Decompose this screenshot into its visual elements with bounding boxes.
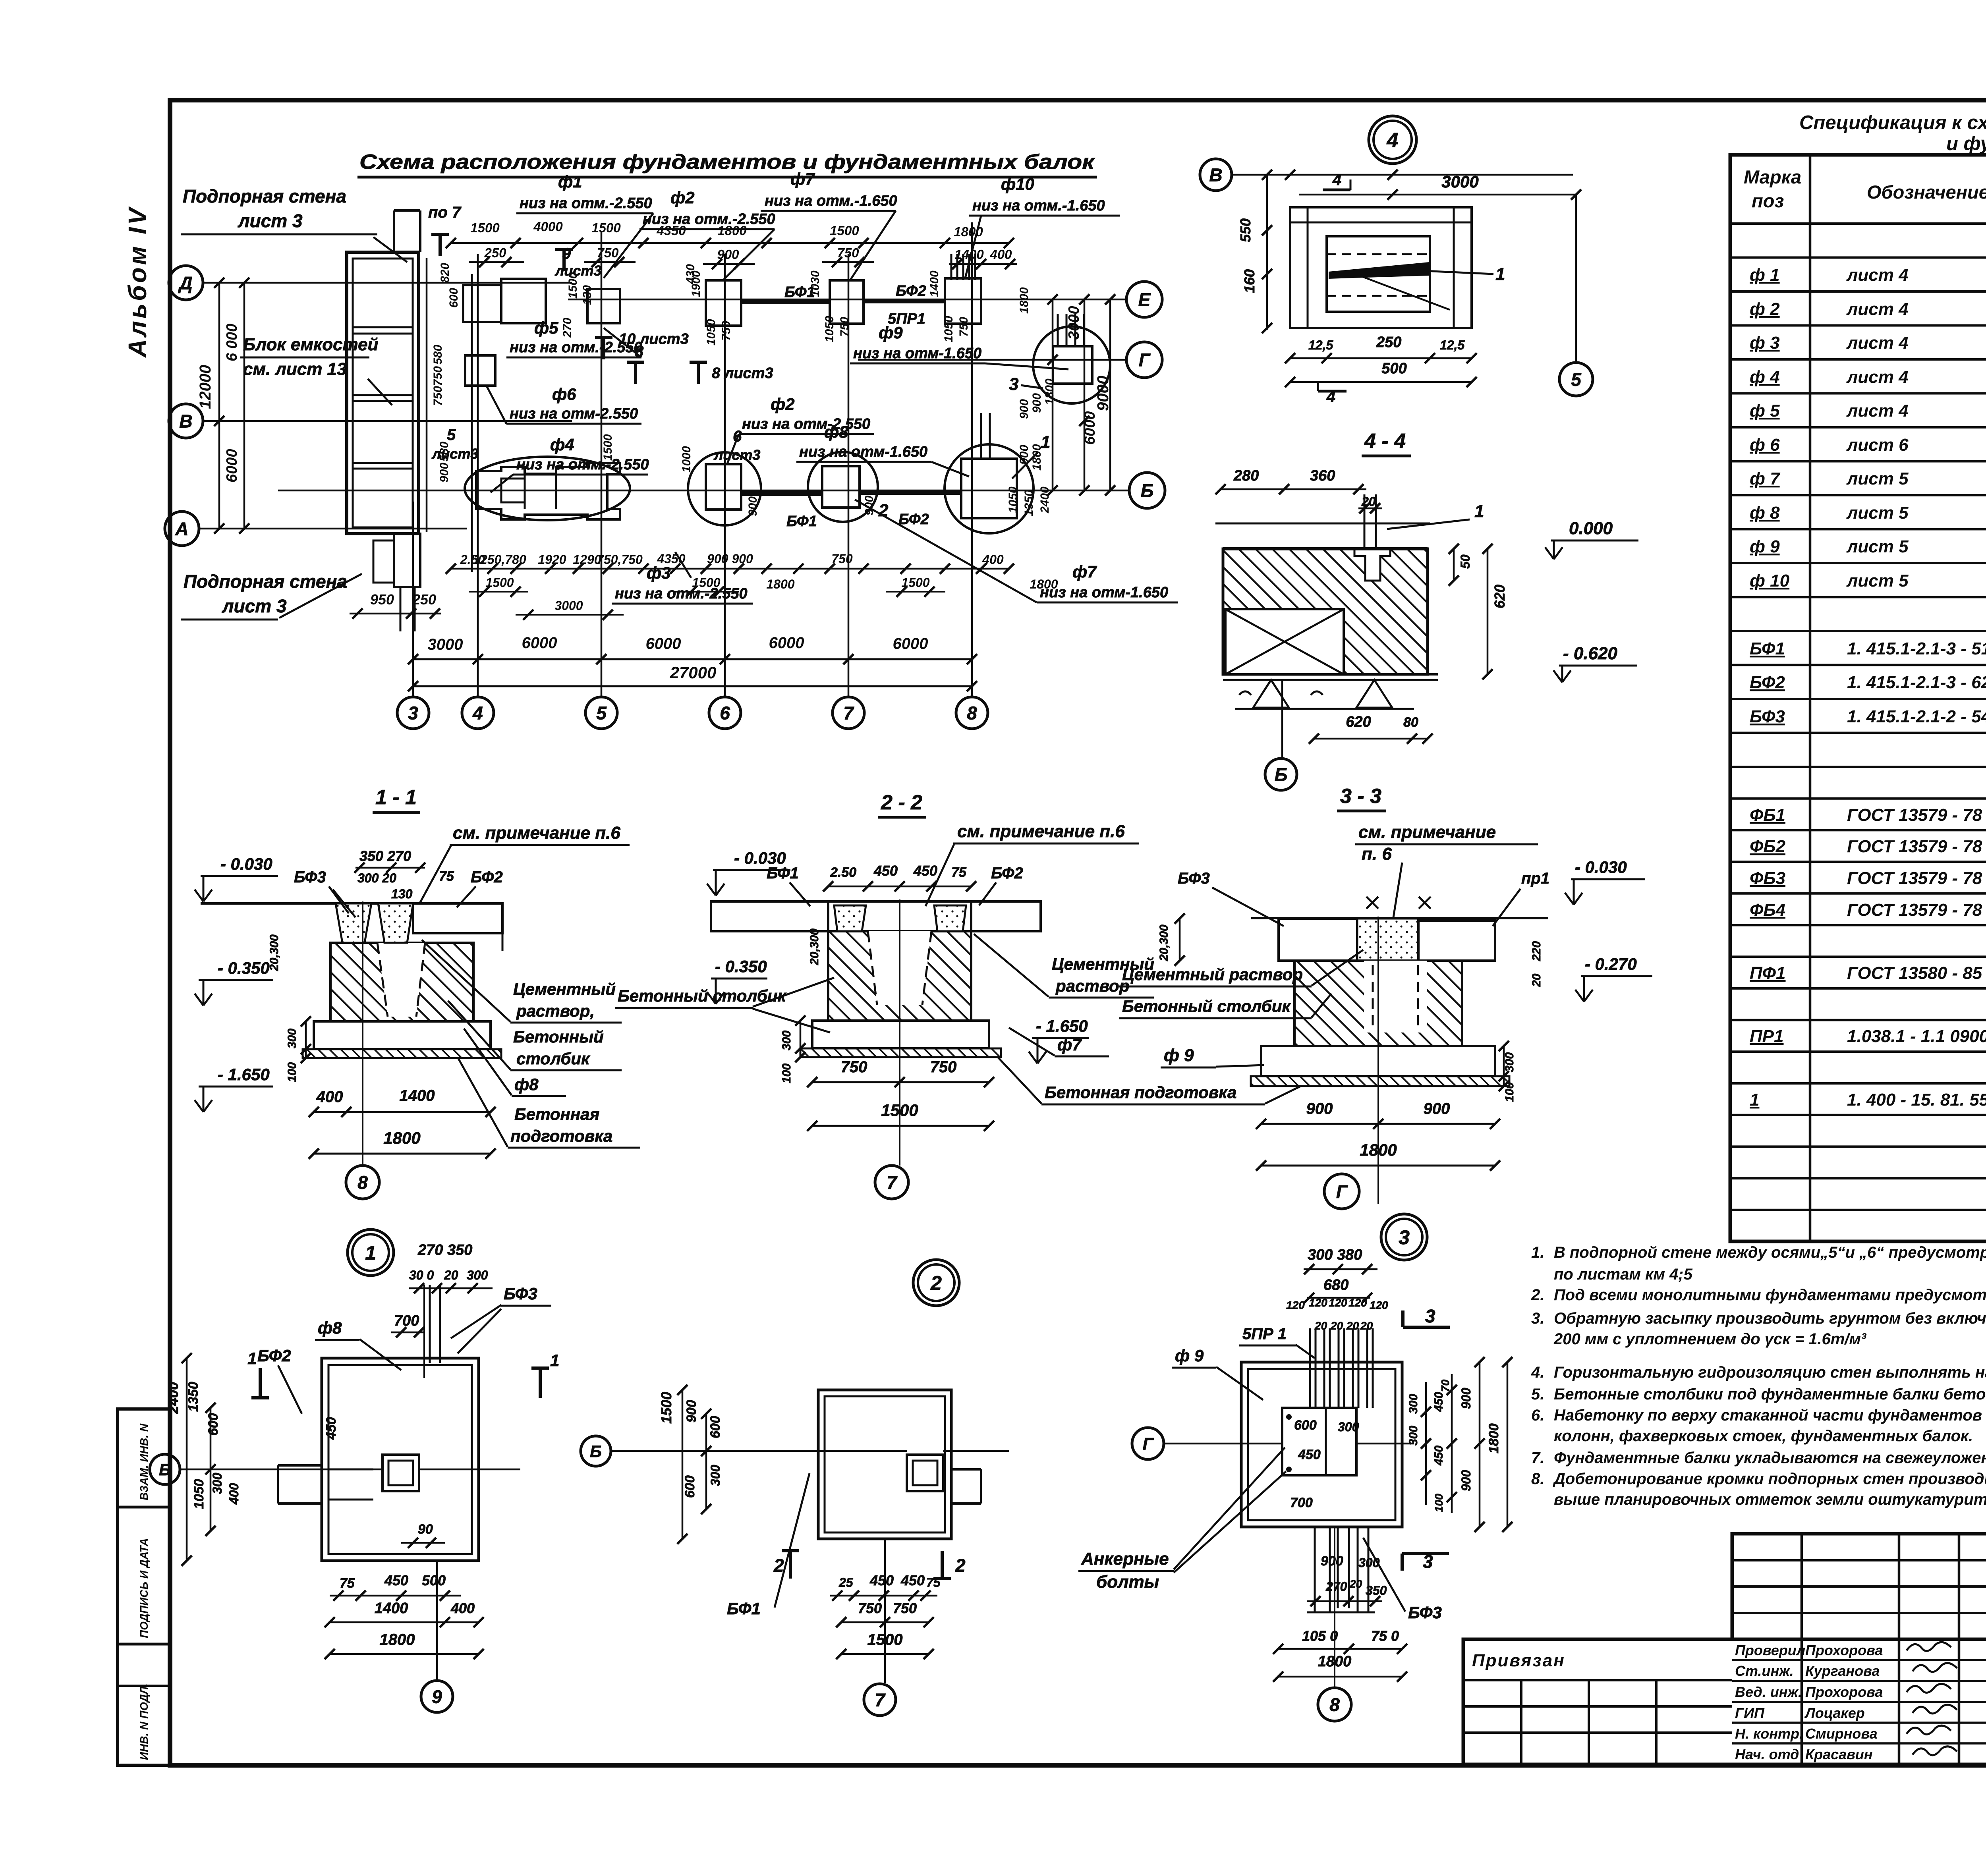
svg-text:6000: 6000: [522, 634, 557, 652]
svg-text:120: 120: [1329, 1297, 1347, 1309]
svg-text:ф6: ф6: [552, 385, 576, 403]
svg-text:750: 750: [957, 317, 970, 337]
svg-text:750: 750: [858, 1600, 882, 1616]
svg-text:Цементный: Цементный: [513, 980, 616, 998]
svg-text:600: 600: [682, 1475, 697, 1498]
svg-text:Прохорова: Прохорова: [1805, 1684, 1883, 1700]
svg-text:БФ2: БФ2: [898, 511, 929, 528]
svg-text:5: 5: [1571, 369, 1582, 390]
svg-text:п. 6: п. 6: [1362, 844, 1392, 864]
svg-text:Лоцакер: Лоцакер: [1804, 1705, 1865, 1721]
svg-text:350: 350: [1366, 1583, 1387, 1598]
svg-text:8: 8: [635, 343, 644, 360]
svg-text:900: 900: [684, 1400, 699, 1422]
svg-text:лист 5: лист 5: [1846, 469, 1909, 488]
svg-text:7: 7: [887, 1172, 898, 1193]
svg-text:ГОСТ 13579 - 78: ГОСТ 13579 - 78: [1847, 869, 1982, 888]
svg-text:Прохорова: Прохорова: [1805, 1642, 1883, 1658]
svg-text:75: 75: [951, 865, 967, 880]
svg-text:80: 80: [1403, 715, 1418, 730]
svg-text:6 000: 6 000: [224, 324, 240, 361]
svg-text:600: 600: [206, 1413, 221, 1436]
beam BF2 bottom: [860, 490, 961, 495]
svg-text:лист 6: лист 6: [1846, 435, 1909, 455]
svg-text:1: 1: [247, 1349, 257, 1368]
svg-text:ф 8: ф 8: [1750, 503, 1780, 523]
axis bubble 8 below 1-1: [346, 1166, 379, 1199]
svg-text:9: 9: [432, 1687, 442, 1707]
svg-text:ф 1: ф 1: [1750, 265, 1780, 285]
title block (stamp): [1463, 1534, 1986, 1764]
svg-text:1800: 1800: [766, 577, 794, 591]
svg-text:Бетонные столбики под фундамен: Бетонные столбики под фундаментные балки…: [1554, 1386, 1986, 1403]
svg-text:ф8: ф8: [514, 1075, 539, 1094]
svg-text:360: 360: [1310, 467, 1335, 484]
svg-text:20,300: 20,300: [808, 928, 821, 965]
svg-text:низ на отм-2.550: низ на отм-2.550: [510, 405, 638, 422]
svg-text:БФ3: БФ3: [294, 869, 326, 886]
svg-text:350 270: 350 270: [359, 848, 411, 864]
svg-text:400: 400: [227, 1483, 241, 1505]
axis bubble V: [169, 404, 203, 438]
svg-text:400: 400: [982, 552, 1004, 567]
svg-text:- 0.030: - 0.030: [220, 855, 272, 873]
svg-text:1400: 1400: [928, 270, 941, 297]
svg-text:низ на отм.-2.550: низ на отм.-2.550: [520, 195, 652, 212]
axis bubble G detail3: [1132, 1428, 1164, 1459]
svg-text:лист 5: лист 5: [1846, 571, 1909, 591]
svg-text:220: 220: [1530, 941, 1543, 961]
svg-text:4000: 4000: [533, 219, 563, 234]
svg-text:100: 100: [1433, 1494, 1445, 1512]
svg-text:- 0.270: - 0.270: [1585, 955, 1637, 973]
svg-text:ИНВ. N ПОДЛ.: ИНВ. N ПОДЛ.: [138, 1683, 150, 1760]
svg-text:300: 300: [286, 1029, 299, 1048]
svg-text:900: 900: [717, 247, 739, 262]
svg-text:поз: поз: [1752, 190, 1784, 211]
svg-text:ф2: ф2: [670, 188, 695, 207]
svg-text:лист 4: лист 4: [1846, 265, 1909, 285]
DETAIL 4 plan: [1200, 116, 1593, 405]
svg-text:75: 75: [439, 869, 454, 884]
axis lines horizontal: [203, 282, 572, 284]
beam BF1 bottom: [741, 491, 822, 496]
axis bubble E: [1126, 282, 1162, 317]
svg-text:9000: 9000: [1094, 376, 1112, 411]
foundation F7 bottom in circle: [808, 452, 878, 522]
svg-text:Красавин: Красавин: [1805, 1746, 1873, 1762]
svg-text:2.50: 2.50: [830, 865, 856, 880]
svg-text:ф4: ф4: [550, 435, 574, 454]
svg-text:1: 1: [1495, 264, 1505, 284]
svg-text:лист 3: лист 3: [238, 210, 303, 231]
svg-text:Альбом IV: Альбом IV: [123, 206, 152, 358]
svg-text:450: 450: [324, 1417, 339, 1440]
svg-text:12,5: 12,5: [1308, 338, 1333, 352]
svg-text:3.: 3.: [1531, 1310, 1544, 1327]
svg-text:2: 2: [773, 1555, 784, 1576]
axis bubble B below 4-4: [1265, 759, 1297, 790]
svg-text:и фундаментных балок.: и фундаментных балок.: [1946, 133, 1986, 154]
svg-text:Б: Б: [1275, 764, 1288, 785]
svg-text:В: В: [179, 411, 192, 432]
svg-text:лист 4: лист 4: [1846, 367, 1909, 387]
svg-text:1920: 1920: [538, 552, 566, 567]
svg-text:900: 900: [1018, 399, 1031, 419]
svg-text:1800: 1800: [1486, 1423, 1501, 1453]
svg-text:ф 6: ф 6: [1750, 435, 1780, 455]
svg-text:1500: 1500: [485, 575, 514, 590]
svg-text:900: 900: [746, 496, 759, 516]
svg-text:Под всеми монолитными фундаме: Под всеми монолитными фундаментами преду…: [1554, 1286, 1986, 1304]
beam BF2 top: [864, 299, 945, 303]
leader labels: [487, 170, 1178, 604]
svg-text:1350: 1350: [186, 1382, 201, 1412]
svg-text:лист 3: лист 3: [222, 596, 287, 616]
svg-text:4 - 4: 4 - 4: [1364, 430, 1406, 453]
svg-text:Д: Д: [178, 273, 192, 293]
svg-text:750: 750: [831, 552, 853, 566]
svg-text:750: 750: [838, 317, 851, 337]
svg-text:450: 450: [869, 1572, 894, 1588]
svg-text:БФ1: БФ1: [1750, 639, 1785, 658]
axis bubble A: [165, 511, 199, 546]
svg-text:БФ2: БФ2: [896, 283, 926, 299]
svg-text:Цементный раствор: Цементный раствор: [1122, 965, 1303, 984]
svg-text:ГИП: ГИП: [1735, 1705, 1765, 1721]
svg-text:300: 300: [708, 1465, 723, 1486]
svg-text:2 - 2: 2 - 2: [881, 791, 922, 814]
svg-text:БФ1: БФ1: [784, 284, 815, 301]
svg-text:90: 90: [418, 1522, 433, 1537]
svg-text:ГОСТ 13579 - 78: ГОСТ 13579 - 78: [1847, 837, 1982, 856]
svg-text:27000: 27000: [670, 663, 717, 682]
node circle 3: [1381, 1214, 1427, 1260]
svg-text:ф 2: ф 2: [1750, 299, 1780, 319]
beam BF1 top: [741, 299, 830, 304]
svg-text:400: 400: [316, 1088, 343, 1106]
svg-text:- 0.350: - 0.350: [218, 959, 270, 977]
svg-text:6: 6: [720, 703, 730, 724]
svg-text:20,300: 20,300: [1157, 924, 1171, 961]
svg-text:1. 400 - 15. 81. 550 - 04: 1. 400 - 15. 81. 550 - 04: [1847, 1090, 1986, 1110]
svg-text:1. 415.1-2.1-3 - 51: 1. 415.1-2.1-3 - 51: [1847, 639, 1986, 658]
svg-text:100: 100: [780, 1063, 793, 1083]
svg-text:450: 450: [384, 1572, 408, 1588]
svg-text:низ на отм-1.650: низ на отм-1.650: [1040, 584, 1168, 601]
svg-text:Бетонная подготовка: Бетонная подготовка: [1045, 1083, 1236, 1102]
svg-text:6: 6: [733, 428, 742, 445]
svg-text:1500: 1500: [470, 220, 500, 235]
svg-text:столбик: столбик: [516, 1049, 590, 1068]
svg-text:низ на отм.-1.650: низ на отм.-1.650: [972, 197, 1105, 214]
svg-text:100: 100: [286, 1062, 299, 1082]
svg-text:см. примечание: см. примечание: [1358, 822, 1496, 842]
svg-text:2: 2: [878, 501, 889, 520]
retaining wall stub bottom: [394, 534, 420, 587]
svg-text:лист3: лист3: [713, 447, 760, 463]
svg-text:лист3: лист3: [431, 446, 478, 462]
svg-text:2: 2: [955, 1555, 966, 1576]
svg-text:ПР1: ПР1: [1750, 1027, 1783, 1046]
svg-text:8: 8: [967, 703, 977, 724]
svg-text:Смирнова: Смирнова: [1805, 1725, 1878, 1742]
svg-text:болты: болты: [1096, 1572, 1159, 1592]
svg-text:20: 20: [1530, 973, 1543, 987]
beam stub left БФ2: [278, 1464, 322, 1467]
svg-text:1250,780: 1250,780: [473, 552, 526, 567]
svg-text:700: 700: [394, 1312, 419, 1329]
svg-text:БФ2: БФ2: [471, 869, 503, 886]
svg-text:5: 5: [447, 426, 456, 444]
axis bubble B2: [1129, 473, 1165, 508]
svg-text:1050: 1050: [823, 316, 836, 342]
svg-text:750: 750: [837, 245, 859, 260]
foundation F4 cluster: [465, 457, 630, 520]
left margin stamp: [118, 1409, 170, 1765]
svg-text:6000: 6000: [893, 635, 928, 652]
svg-text:4: 4: [1332, 171, 1341, 189]
svg-text:1: 1: [1041, 432, 1050, 452]
svg-text:1800: 1800: [380, 1631, 415, 1648]
svg-text:выше планировочных отметок: выше планировочных отметок земли оштукат…: [1554, 1491, 1986, 1508]
svg-text:по 7: по 7: [428, 204, 462, 221]
foundation F5: [587, 289, 620, 323]
svg-text:450: 450: [1298, 1447, 1321, 1462]
svg-text:3000: 3000: [428, 636, 463, 653]
svg-text:0.000: 0.000: [1569, 519, 1613, 538]
foundation F6: [465, 355, 495, 386]
svg-text:лист3: лист3: [554, 262, 601, 279]
svg-text:900 900: 900 900: [707, 552, 753, 566]
svg-text:ф10: ф10: [1001, 175, 1034, 193]
SECTION 3-3: [1029, 785, 1652, 1209]
svg-text:ГОСТ 13579 - 78: ГОСТ 13579 - 78: [1847, 900, 1982, 920]
svg-text:1. 415.1-2.1-3 - 62: 1. 415.1-2.1-3 - 62: [1847, 673, 1986, 692]
svg-text:- 0.030: - 0.030: [1575, 858, 1627, 876]
svg-text:- 1.650: - 1.650: [1036, 1017, 1088, 1035]
svg-text:Обратную засыпку производить: Обратную засыпку производить грунтом без…: [1554, 1310, 1986, 1327]
SECTION 2-2: [615, 791, 1305, 1306]
axis bubble 5 for detail4: [1559, 363, 1593, 396]
axis bubble 7: [833, 697, 864, 729]
DETAIL узел 3 plan: [1078, 1247, 1513, 1721]
svg-text:Г: Г: [1139, 350, 1151, 371]
axis bubble B detail1: [150, 1454, 180, 1484]
svg-text:Добетонирование кромки подпо: Добетонирование кромки подпорных стен пр…: [1553, 1470, 1986, 1488]
svg-text:ф 9: ф 9: [1175, 1346, 1204, 1365]
svg-text:300 20: 300 20: [357, 871, 396, 885]
svg-text:1800: 1800: [1043, 378, 1056, 405]
svg-text:Анкерные: Анкерные: [1081, 1549, 1169, 1569]
svg-text:- 0.350: - 0.350: [715, 957, 767, 976]
spec table: [1730, 155, 1986, 1241]
svg-text:ф 9: ф 9: [1164, 1046, 1194, 1065]
svg-text:900: 900: [1306, 1100, 1333, 1117]
svg-text:450: 450: [913, 863, 937, 879]
svg-text:1400: 1400: [375, 1600, 408, 1617]
svg-text:Блок емкостей: Блок емкостей: [243, 335, 379, 354]
SECTION 1-1: [195, 786, 640, 1276]
svg-text:75: 75: [340, 1576, 355, 1591]
svg-text:280: 280: [1233, 467, 1259, 484]
svg-text:ВЗАМ. ИНВ. N: ВЗАМ. ИНВ. N: [138, 1423, 150, 1500]
svg-text:2400: 2400: [165, 1382, 181, 1414]
svg-text:Фундаментные балки укладываю: Фундаментные балки укладываются на свеже…: [1554, 1449, 1986, 1467]
svg-text:4: 4: [472, 703, 483, 724]
svg-text:Б: Б: [1141, 481, 1154, 501]
svg-text:1500: 1500: [901, 575, 929, 590]
svg-text:Обозначение: Обозначение: [1867, 181, 1986, 203]
foundation F9 in circle: [1033, 326, 1110, 403]
svg-text:1.038.1 - 1.1 090000 - 04: 1.038.1 - 1.1 090000 - 04: [1847, 1027, 1986, 1046]
svg-text:БФ3: БФ3: [504, 1284, 537, 1303]
foundation F8 node 1 big circle: [945, 444, 1034, 533]
svg-text:300: 300: [210, 1473, 224, 1494]
svg-text:по листам км 4;5: по листам км 4;5: [1554, 1266, 1693, 1283]
svg-text:ФБ3: ФБ3: [1750, 869, 1785, 888]
svg-text:3: 3: [1399, 1226, 1410, 1249]
svg-text:Г: Г: [1336, 1181, 1348, 1202]
svg-text:450: 450: [873, 863, 898, 879]
svg-text:700: 700: [1290, 1495, 1313, 1510]
svg-text:ГОСТ 13579 - 78: ГОСТ 13579 - 78: [1847, 805, 1982, 825]
svg-text:12000: 12000: [197, 365, 214, 409]
svg-text:ф1: ф1: [558, 172, 582, 191]
svg-text:1.: 1.: [1531, 1244, 1544, 1261]
axis bubble B detail2: [581, 1436, 611, 1466]
inner foundation rect: [1282, 1408, 1356, 1475]
svg-text:200 мм с уплотнением до γск: 200 мм с уплотнением до γск = 1.6т/м³: [1553, 1330, 1867, 1348]
svg-text:450: 450: [900, 1572, 925, 1588]
svg-text:160: 160: [1241, 269, 1258, 293]
svg-text:Курганова: Курганова: [1805, 1663, 1880, 1679]
svg-text:ф7: ф7: [790, 170, 815, 188]
svg-text:900: 900: [438, 463, 451, 483]
foundation F7 top: [830, 280, 864, 324]
svg-text:1: 1: [550, 1351, 559, 1370]
svg-text:низ на отм.-2.550: низ на отм.-2.550: [615, 585, 748, 602]
svg-text:колонн, фахверковых стоек, фу: колонн, фахверковых стоек, фундаментных …: [1554, 1427, 1973, 1445]
svg-text:8 лист3: 8 лист3: [712, 365, 773, 382]
svg-text:750: 750: [720, 321, 733, 341]
DETAIL узел 2 plan: [581, 1385, 1009, 1716]
svg-text:лист 5: лист 5: [1846, 503, 1909, 523]
axis bubble D: [169, 266, 203, 300]
axis bubble V top: [1200, 159, 1232, 191]
DETAIL узел 1 plan: [150, 1242, 559, 1712]
svg-text:БФ1: БФ1: [767, 865, 799, 882]
svg-text:580: 580: [431, 345, 444, 365]
plan dimensions and labels: [408, 654, 977, 691]
svg-text:450: 450: [1432, 1392, 1445, 1412]
svg-text:ФБ2: ФБ2: [1750, 837, 1786, 856]
svg-text:1: 1: [1474, 502, 1484, 521]
svg-text:1800: 1800: [1360, 1141, 1397, 1159]
svg-text:низ на отм-1.650: низ на отм-1.650: [853, 345, 981, 362]
svg-text:20: 20: [1330, 1320, 1343, 1332]
svg-text:раствор: раствор: [1055, 977, 1129, 995]
svg-text:600: 600: [447, 288, 460, 308]
svg-text:ФБ4: ФБ4: [1750, 900, 1785, 920]
svg-text:250: 250: [1376, 334, 1401, 351]
svg-text:БФ3: БФ3: [1750, 707, 1785, 726]
svg-text:6000: 6000: [224, 449, 240, 483]
svg-text:Привязан: Привязан: [1472, 1651, 1565, 1670]
PLAN VIEW: scheme of foundations: [347, 151, 1097, 631]
svg-text:низ на отм-2.550: низ на отм-2.550: [742, 416, 870, 432]
svg-text:БФ2: БФ2: [991, 865, 1023, 882]
svg-text:8: 8: [1329, 1695, 1340, 1715]
SECTION 4-4: [1215, 430, 1638, 790]
svg-text:лист 5: лист 5: [1846, 537, 1909, 556]
svg-text:6000: 6000: [1082, 411, 1098, 445]
svg-text:270: 270: [1325, 1579, 1347, 1594]
svg-text:ф 3: ф 3: [1750, 333, 1780, 353]
svg-text:А: А: [175, 519, 188, 539]
retaining wall stub top: [393, 210, 395, 252]
svg-text:5ПР 1: 5ПР 1: [1242, 1325, 1287, 1343]
node circle 2: [913, 1260, 959, 1306]
svg-text:БФ3: БФ3: [1408, 1603, 1442, 1622]
svg-text:120: 120: [1286, 1299, 1305, 1311]
svg-text:12,5: 12,5: [1440, 338, 1465, 352]
foundation F10: [945, 278, 981, 324]
svg-text:300: 300: [467, 1268, 488, 1282]
svg-text:550: 550: [1237, 218, 1254, 242]
svg-text:1: 1: [365, 1242, 376, 1264]
svg-text:1 - 1: 1 - 1: [375, 786, 417, 809]
svg-text:лист 4: лист 4: [1846, 401, 1909, 421]
svg-text:750: 750: [431, 366, 444, 386]
svg-text:750: 750: [841, 1058, 867, 1076]
svg-text:Бетонная: Бетонная: [514, 1105, 599, 1123]
svg-text:300: 300: [1407, 1426, 1420, 1446]
svg-text:лист 4: лист 4: [1846, 333, 1909, 353]
svg-text:300: 300: [1358, 1556, 1380, 1570]
svg-text:Б: Б: [590, 1442, 602, 1461]
axis bubble 4: [462, 697, 494, 729]
svg-text:Подпорная стена: Подпорная стена: [183, 186, 346, 207]
svg-text:500: 500: [422, 1572, 446, 1588]
svg-text:75 0: 75 0: [1371, 1628, 1399, 1644]
svg-text:20: 20: [1349, 1578, 1362, 1590]
svg-text:Проверил: Проверил: [1735, 1642, 1805, 1658]
svg-text:680: 680: [1323, 1277, 1348, 1293]
svg-text:70: 70: [1439, 1379, 1451, 1392]
svg-text:300 380: 300 380: [1308, 1247, 1362, 1263]
svg-text:300: 300: [1503, 1052, 1516, 1072]
foundation F1: [501, 279, 546, 323]
svg-text:см. примечание п.6: см. примечание п.6: [957, 822, 1125, 841]
svg-text:400: 400: [989, 247, 1012, 262]
svg-text:1. 415.1-2.1-2 - 54: 1. 415.1-2.1-2 - 54: [1847, 707, 1986, 726]
svg-text:900: 900: [1321, 1554, 1343, 1569]
svg-text:БФ2: БФ2: [1750, 673, 1785, 692]
svg-text:250: 250: [412, 591, 436, 608]
svg-text:300: 300: [1407, 1394, 1420, 1414]
svg-text:Нач. отд: Нач. отд: [1735, 1746, 1799, 1762]
svg-text:лист 4: лист 4: [1846, 299, 1909, 319]
svg-text:4: 4: [1387, 129, 1399, 152]
svg-text:620: 620: [1491, 585, 1508, 608]
svg-text:ГОСТ 13580 - 85: ГОСТ 13580 - 85: [1847, 963, 1982, 983]
svg-text:600: 600: [1294, 1418, 1317, 1433]
svg-text:ПФ1: ПФ1: [1750, 963, 1785, 983]
svg-text:5.: 5.: [1531, 1386, 1544, 1403]
node circle 1: [348, 1229, 394, 1276]
svg-text:600: 600: [708, 1416, 723, 1438]
